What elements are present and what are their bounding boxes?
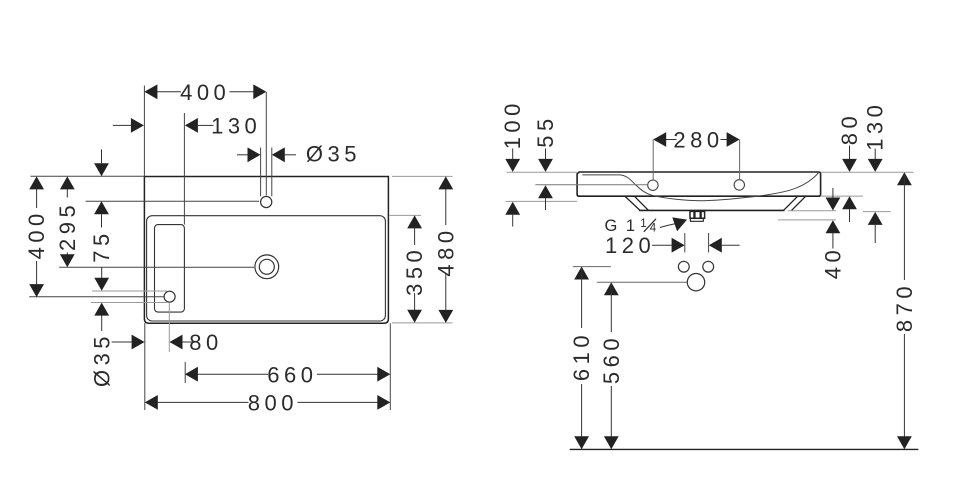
rim inner top line and bowl profile curve [582, 173, 818, 201]
bowl bottom edge [639, 209, 785, 211]
ext faucet hole center vertical [265, 92, 267, 195]
trap circle big [687, 274, 704, 291]
ext right for 660/800 dims [389, 323, 391, 410]
dimension 400 vertical left [36, 178, 38, 297]
small hole circle [164, 291, 175, 302]
ext 350/480 bottom right [392, 322, 453, 324]
basin outer rect 800x480 [144, 177, 388, 324]
dimension 75 vertical left [101, 150, 103, 164]
leader drain center [59, 266, 254, 268]
ext 280 left vertical [652, 140, 654, 180]
dimension 660 bottom [186, 373, 389, 375]
ext hole right tangent vertical [271, 148, 273, 197]
arrow G 1 1/4 [672, 217, 687, 231]
svg-text:295: 295 [55, 201, 80, 251]
leader faucet hole [86, 200, 259, 202]
trap circle right [703, 261, 714, 272]
dimension 400 horizontal top [146, 91, 265, 93]
svg-text:480: 480 [433, 226, 458, 276]
basin rim inner rounded rect [147, 216, 386, 321]
dimension 800 bottom [146, 401, 389, 403]
svg-text:400: 400 [180, 80, 230, 105]
svg-text:610: 610 [569, 331, 594, 381]
leader G 1 1/4 [660, 223, 677, 227]
ext top surface left [507, 171, 577, 173]
leader trap big circle [597, 281, 687, 283]
svg-text:Ø35: Ø35 [90, 332, 115, 387]
dimension 55 left [533, 114, 558, 147]
svg-text:130: 130 [211, 113, 261, 138]
ext 480 top right [392, 175, 453, 177]
bowl right slant outer [792, 196, 806, 210]
shelf rounded rect [155, 225, 185, 313]
svg-text:560: 560 [599, 334, 624, 384]
leader small hole top tangent [92, 290, 167, 292]
ext fitting bottom for 40 [778, 219, 836, 221]
svg-text:130: 130 [863, 101, 888, 151]
dimension 295 vertical left [66, 178, 68, 267]
dimension 610 bottom left [574, 267, 589, 280]
dimension 80 bottom [112, 341, 193, 343]
drain fitting upper body [690, 211, 705, 218]
dimension 870 right [897, 172, 912, 185]
dimension diameter 35 small hole vertical [101, 267, 103, 278]
leader mounting holes height 55 [535, 184, 647, 186]
mounting hole left circle [648, 180, 658, 190]
ext top edge left [31, 175, 145, 177]
dimension 130 right [863, 101, 888, 151]
trap circle left [678, 261, 689, 272]
faucet hole circle [261, 196, 272, 207]
svg-text:400: 400 [24, 209, 49, 259]
svg-text:280: 280 [673, 128, 723, 153]
ext bowl bottom for 130 [863, 211, 891, 213]
ext bowl bottom right for 40 [788, 210, 836, 212]
ext small hole down for 80 dim [168, 303, 170, 352]
ext shelf right edge up to 130 dim [183, 113, 185, 225]
ext 120 left vertical [684, 233, 686, 252]
dimension 80 right [837, 112, 862, 145]
dimension 280 top [655, 139, 739, 141]
dimension 130 top [113, 124, 214, 126]
svg-text:40: 40 [820, 246, 845, 279]
dimension diameter 35 top [237, 154, 296, 156]
ext slab bottom right for 80 [821, 195, 863, 197]
drain fitting thread bar right [700, 211, 702, 218]
leader trap small circles [573, 266, 611, 268]
dimension 100 left [500, 99, 525, 149]
ext 280 right vertical [739, 140, 741, 180]
svg-text:55: 55 [533, 114, 558, 147]
leader small hole bottom tangent [91, 302, 167, 304]
drain inner circle [259, 259, 274, 274]
drain outer circle [255, 255, 279, 279]
svg-text:80: 80 [837, 112, 862, 145]
svg-text:100: 100 [500, 99, 525, 149]
dimension 350 vertical right [414, 216, 416, 321]
drain fitting lower collar [690, 218, 703, 221]
svg-text:870: 870 [892, 282, 917, 332]
ext top surface right [821, 171, 914, 173]
ext 120 right vertical [708, 233, 710, 252]
svg-text:75: 75 [89, 229, 114, 262]
ext left for 80/800 dims [144, 323, 146, 410]
dimension 560 bottom left [604, 282, 619, 295]
bowl left slant inner [635, 196, 649, 210]
svg-text:350: 350 [402, 246, 427, 296]
svg-text:120: 120 [605, 233, 655, 258]
mounting hole right circle [734, 180, 744, 190]
slab outline [577, 172, 821, 196]
dimension 480 vertical right [445, 178, 447, 322]
drain fitting thread bar left [693, 211, 695, 218]
dimension 40 right [832, 188, 834, 198]
bowl right slant inner [784, 196, 798, 210]
bowl left slant outer [625, 196, 640, 210]
svg-text:Ø35: Ø35 [306, 142, 361, 167]
svg-text:80: 80 [189, 330, 222, 355]
ext hole left tangent vertical [260, 148, 262, 197]
svg-text:1: 1 [640, 218, 646, 230]
ext 660 left [184, 362, 186, 383]
ext 100 bottom [506, 200, 577, 202]
svg-text:660: 660 [267, 362, 317, 387]
svg-text:800: 800 [248, 391, 298, 416]
ext left edge up to 400 dim [143, 86, 145, 177]
leader small hole center [29, 296, 163, 298]
ext 350 top right [390, 214, 422, 216]
floor line [570, 448, 919, 450]
